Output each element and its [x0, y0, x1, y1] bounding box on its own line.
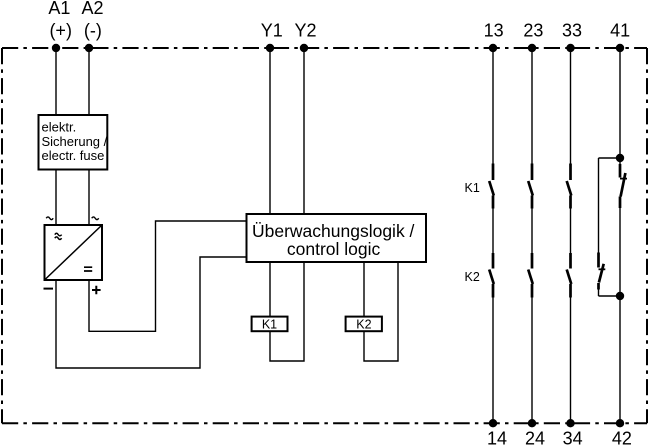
- wire 23 column: [531, 48, 533, 423]
- svg-text:34: 34: [563, 429, 583, 446]
- svg-text:electr. fuse: electr. fuse: [42, 148, 105, 163]
- wire plus loop to logic: [89, 221, 247, 331]
- contact K2 33: [567, 253, 572, 298]
- junction 41 branch bottom: [616, 292, 624, 300]
- wire K1 coil loop: [270, 262, 304, 361]
- wire 13 column: [492, 48, 494, 423]
- tilde left above supply: [46, 217, 53, 220]
- contact K1 41 NC: [620, 164, 627, 208]
- node A2: [85, 44, 93, 52]
- svg-text:33: 33: [562, 21, 582, 41]
- contact K1 33: [567, 164, 572, 209]
- svg-text:23: 23: [523, 21, 543, 41]
- node 33: [566, 44, 574, 52]
- contact K2 23: [528, 253, 533, 298]
- wire 33 column: [570, 48, 572, 423]
- wire Y2: [303, 48, 305, 214]
- node 23: [528, 44, 536, 52]
- node 41: [616, 44, 624, 52]
- svg-text:K2: K2: [356, 318, 371, 332]
- wire A1 top: [55, 48, 57, 115]
- wire Y1: [269, 48, 271, 214]
- wire A2 fuse to supply: [88, 170, 90, 226]
- contact K1 13: [489, 164, 494, 209]
- node 42: [616, 419, 624, 427]
- svg-text:42: 42: [612, 429, 632, 446]
- power supply AC symbol inside: [55, 233, 62, 239]
- plus sign below supply: [92, 286, 101, 295]
- svg-text:(-): (-): [84, 21, 102, 41]
- node 34: [566, 419, 574, 427]
- svg-text:Y1: Y1: [261, 21, 283, 41]
- svg-text:41: 41: [610, 21, 630, 41]
- wire 41 branch left: [598, 158, 600, 296]
- control logic box U2: [247, 214, 427, 262]
- minus sign below supply: [44, 288, 54, 290]
- svg-text:Y2: Y2: [294, 21, 316, 41]
- svg-text:A1: A1: [48, 0, 70, 18]
- svg-text:24: 24: [525, 429, 545, 446]
- svg-text:13: 13: [484, 21, 504, 41]
- node Y1: [266, 44, 274, 52]
- svg-text:K2: K2: [465, 270, 480, 284]
- svg-text:control logic: control logic: [287, 239, 381, 259]
- svg-text:A2: A2: [81, 0, 103, 18]
- node 24: [528, 419, 536, 427]
- power supply U1: [45, 225, 103, 280]
- wire 41 column: [619, 48, 621, 423]
- contact K2 41 NC: [599, 253, 606, 290]
- svg-text:Sicherung /: Sicherung /: [42, 134, 108, 149]
- wire minus loop to logic: [56, 257, 247, 368]
- node A1: [52, 44, 60, 52]
- contact K2 13: [489, 253, 494, 298]
- svg-text:elektr.: elektr.: [42, 120, 77, 135]
- node 13: [489, 44, 497, 52]
- wire A1 fuse to supply: [55, 170, 57, 226]
- contact K1 23: [528, 164, 533, 209]
- power supply diagonal: [45, 225, 103, 280]
- svg-text:(+): (+): [49, 21, 72, 41]
- relay coil K1: [252, 317, 288, 332]
- tilde right above supply: [92, 217, 99, 220]
- relay coil K2: [346, 317, 382, 332]
- wire 41 branch bottom: [599, 295, 621, 297]
- node Y2: [300, 44, 308, 52]
- svg-text:14: 14: [487, 429, 507, 446]
- wire A2 top: [88, 48, 90, 115]
- wire 41 branch top: [599, 157, 621, 159]
- wire K2 coil loop: [364, 262, 398, 361]
- svg-text:K1: K1: [465, 181, 480, 195]
- power supply DC symbol inside: [84, 267, 92, 271]
- svg-text:K1: K1: [262, 318, 277, 332]
- fuse box: [39, 115, 108, 170]
- node 14: [489, 419, 497, 427]
- junction 41 branch top: [616, 154, 624, 162]
